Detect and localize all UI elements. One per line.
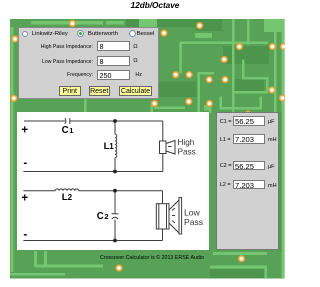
label High Pass Impedance	[0, 44, 93, 50]
wire: LP top wire right segment	[79, 190, 163, 192]
result row C1	[220, 119, 232, 125]
unit ohm	[133, 44, 137, 50]
white schematic box	[17, 112, 209, 250]
button Calculate	[119, 86, 152, 96]
form panel	[18, 27, 159, 100]
wire: LP bottom wire	[23, 240, 162, 242]
title 12db/Octave	[5, 1, 305, 10]
svg-text:1: 1	[69, 126, 73, 135]
wire: HP speaker bottom to bottom wire	[162, 154, 164, 172]
svg-text:-: -	[23, 158, 27, 170]
PCB green background panel	[10, 19, 285, 279]
speaker Low Pass (woofer)	[156, 204, 169, 229]
wire: LP down to speaker	[162, 191, 164, 204]
svg-text:+: +	[21, 124, 28, 136]
speaker High Pass	[160, 141, 167, 154]
label Low Pass Impedance	[0, 59, 93, 65]
node: LP bottom junction	[113, 239, 117, 243]
node: HP top junction	[113, 119, 117, 123]
button Reset	[89, 86, 111, 96]
input low pass impedance = 8	[97, 56, 130, 66]
inductor L1 (vertical coil)	[114, 121, 116, 134]
capacitor C2 (vertical)	[114, 191, 116, 214]
result row C2	[220, 163, 232, 169]
label Frequency	[0, 72, 93, 78]
wire: HP top wire right segment	[70, 120, 163, 122]
result row L2	[220, 182, 231, 188]
svg-text:Pass: Pass	[184, 217, 203, 227]
unit ohm	[133, 58, 137, 64]
results panel	[216, 112, 280, 250]
wire: LP speaker bottom to bottom wire	[162, 229, 164, 241]
svg-text:Pass: Pass	[178, 147, 196, 156]
unit Hz	[135, 72, 142, 78]
node: HP bottom junction	[113, 170, 117, 174]
input high pass impedance = 8	[97, 41, 130, 51]
inductor L2 (horizontal coil)	[55, 189, 78, 191]
svg-text:C: C	[97, 211, 104, 222]
result row L1	[220, 137, 231, 143]
svg-text:High: High	[178, 138, 195, 147]
solder pads (gold dots)	[10, 19, 288, 272]
svg-text:2: 2	[104, 212, 108, 221]
svg-text:+: +	[21, 192, 28, 204]
radio Butterworth (selected)	[77, 30, 84, 37]
radio Bessel	[129, 30, 136, 37]
copyright text	[100, 255, 204, 261]
circuit schematic SVG	[17, 112, 209, 250]
svg-text:2: 2	[68, 193, 73, 202]
node: LP top junction	[113, 189, 117, 193]
svg-text:-: -	[23, 229, 27, 241]
input frequency = 250	[97, 70, 130, 80]
radio Linkwitz-Riley	[22, 31, 29, 38]
capacitor C1	[65, 118, 66, 124]
svg-text:C: C	[62, 125, 69, 136]
wire: HP down to speaker	[162, 121, 164, 141]
button Print	[59, 86, 81, 96]
wire: HP bottom wire	[23, 171, 162, 173]
svg-text:1: 1	[109, 142, 114, 151]
wire: HP top wire left segment	[24, 120, 65, 122]
wire: LP top wire left segment	[23, 190, 55, 192]
